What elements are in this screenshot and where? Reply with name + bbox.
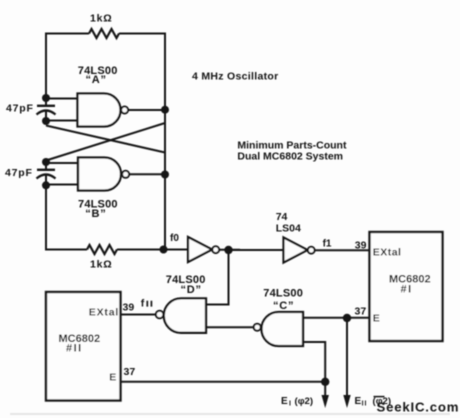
svg-text:“C”: “C” (273, 300, 294, 312)
wire bottom rail left segment (45, 249, 87, 251)
node f0 junction on bottom rail (160, 246, 168, 254)
svg-text:#II: #II (66, 343, 83, 355)
wire junction down to output arrow (324, 382, 326, 396)
IC U4 MC6802 #II (46, 292, 121, 401)
wire right vertical line (164, 33, 166, 251)
svg-text:E: E (373, 312, 380, 324)
wire f1 to EXtal pin 39 of U3 (315, 249, 370, 251)
node inverter U2A output junction (224, 246, 232, 254)
NAND gate U1D 74LS00 "D" (mirrored, points left) (156, 298, 206, 332)
wire top rail left segment (46, 33, 89, 35)
svg-text:II: II (362, 401, 368, 408)
wire bottom rail right segment to inverter (117, 249, 188, 251)
NAND gate U1B 74LS00 "B" (78, 158, 129, 191)
svg-text:1kΩ: 1kΩ (90, 12, 113, 24)
wire inverter U2A output to junction (219, 249, 240, 251)
wire left vertical line lower (45, 185, 47, 250)
node E junction (343, 314, 351, 322)
node B top input (junction dot) (42, 158, 50, 166)
node A top input (junction dot) (42, 94, 50, 102)
wire junction to inverter U2B (229, 249, 284, 251)
svg-text:74: 74 (276, 211, 288, 223)
node gate B output on right line (161, 171, 169, 179)
svg-text:I: I (289, 401, 291, 408)
svg-text:f: f (141, 298, 145, 310)
wire left vertical line upper (45, 33, 47, 99)
svg-text:E: E (281, 396, 288, 407)
svg-text:37: 37 (355, 306, 367, 318)
label output E_II (phi2 bar) (355, 396, 392, 408)
svg-text:(φ2): (φ2) (295, 396, 314, 407)
svg-text:37: 37 (124, 366, 136, 378)
svg-text:4 MHz Oscillator: 4 MHz Oscillator (192, 70, 279, 82)
wire cross-coupling diagonal from A lower input node to B output net (46, 126, 165, 153)
wire gate C lower input (303, 342, 325, 382)
svg-text:SeekIC.com: SeekIC.com (377, 399, 460, 414)
svg-text:Dual MC6802 System: Dual MC6802 System (237, 151, 343, 163)
svg-text:E: E (355, 396, 362, 407)
svg-text:EXtal: EXtal (373, 246, 402, 258)
wire gate D output to EXtal pin 39 of U4 (121, 314, 156, 316)
wire E junction down to output arrow (346, 318, 348, 396)
resistor R2 1k ohm (bottom) (87, 245, 117, 254)
wire gate B output (129, 173, 165, 175)
svg-text:39: 39 (123, 302, 135, 314)
wire gate B upper input (46, 162, 79, 164)
svg-text:47pF: 47pF (6, 103, 34, 115)
wire top rail right segment (119, 33, 166, 35)
IC U3 MC6802 #I (370, 232, 443, 341)
label node fII (141, 298, 152, 310)
svg-text:“A”: “A” (86, 74, 107, 86)
svg-text:47pF: 47pF (5, 167, 33, 179)
node B bottom input (junction dot) (42, 181, 50, 189)
svg-text:1kΩ: 1kΩ (90, 259, 113, 271)
svg-text:f1: f1 (323, 239, 332, 250)
svg-text:“B”: “B” (85, 208, 106, 220)
svg-text:39: 39 (355, 240, 367, 252)
svg-text:#I: #I (401, 284, 413, 296)
wire cross-coupling diagonal from A output net to B upper input node (46, 123, 165, 161)
svg-text:f0: f0 (170, 233, 179, 244)
NAND gate U1A 74LS00 "A" (78, 94, 129, 127)
node A bottom input (junction dot) (42, 117, 50, 125)
wire from junction down to gate D upper input (206, 250, 229, 305)
svg-text:“D”: “D” (181, 284, 202, 296)
wire gate A output (128, 109, 165, 111)
svg-text:EXtal: EXtal (89, 307, 119, 319)
arrow output E_I (322, 395, 329, 408)
arrow output E_II (343, 395, 350, 408)
label output E_I (phi2) (281, 396, 313, 408)
inverter U2B 74LS04 (284, 238, 315, 263)
scan artifact strip at bottom (10, 413, 450, 415)
wire E pin of U4 to output junction (121, 381, 326, 383)
NAND gate U1C 74LS00 "C" (mirrored, points left) (254, 312, 303, 346)
node E_I output junction (321, 378, 329, 386)
svg-text:LS04: LS04 (276, 223, 301, 235)
node gate A output on right line (161, 106, 169, 114)
wire gate B lower input (46, 184, 79, 186)
svg-text:E: E (109, 372, 116, 384)
wire gate A upper input (46, 98, 78, 100)
wire gate A lower input (46, 120, 78, 122)
capacitor C2 47pF (37, 162, 56, 185)
inverter U2A (buffer on f0) (188, 237, 219, 262)
wire gate C output to gate D lower input (206, 326, 254, 328)
wire E net from gate C inputs to E pin of U3 (303, 317, 370, 319)
svg-text:74LS00: 74LS00 (263, 288, 303, 300)
resistor R1 1k ohm (top) (89, 29, 119, 38)
capacitor C1 47pF (37, 98, 56, 121)
